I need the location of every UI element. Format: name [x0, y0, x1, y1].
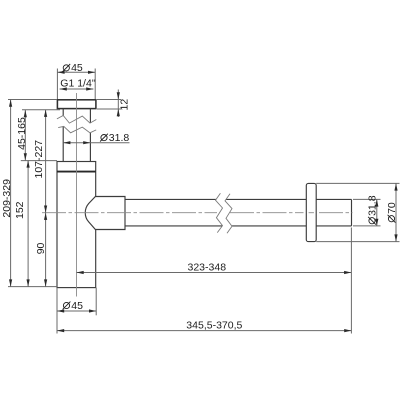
- label d70: [386, 202, 398, 223]
- extension line below outlet pipe end: [350, 228, 352, 334]
- inlet tailpipe right wall lower segment: [89, 133, 91, 162]
- dimension line d31.8 outlet: [376, 199, 378, 226]
- extension line flange bottom right (d70): [316, 241, 399, 243]
- outlet pipe break line 1: [216, 193, 223, 232]
- extension line body bottom right (d45): [95, 288, 97, 316]
- wall escutcheon flange (d70): [306, 183, 316, 241]
- outlet pipe bottom wall right segment: [232, 225, 352, 227]
- dimension line 152: [27, 160, 29, 286]
- extension line body bottom, to the left: [8, 286, 57, 288]
- inlet tailpipe left wall upper segment: [62, 109, 64, 116]
- extension line flange top, to the left: [8, 99, 57, 101]
- dimension line G1 1/4 thread: [60, 88, 94, 90]
- extension line body bottom left (d45): [56, 288, 58, 334]
- dimension line 45-165: [24, 110, 26, 160]
- extension line flange bottom right (12): [97, 108, 121, 110]
- extension line body nut top, to the left: [21, 160, 57, 162]
- extension line flange top right (d70): [316, 182, 399, 184]
- horizontal centerline, right part: [319, 212, 353, 214]
- svg-text:31.8: 31.8: [366, 195, 378, 216]
- label d45 bottom: [63, 300, 84, 312]
- tailpipe break line 1: [57, 116, 96, 124]
- svg-text:323-348: 323-348: [188, 262, 227, 274]
- svg-text:45-165: 45-165: [16, 117, 28, 150]
- trap body top coupling nut edge: [57, 171, 96, 173]
- inlet tailpipe right wall upper segment: [89, 109, 91, 123]
- outlet pipe break line 2: [225, 194, 232, 233]
- dimension line 345,5-370,5: [57, 330, 351, 332]
- horizontal centerline of outlet pipe, left part: [42, 212, 217, 214]
- extension line flange bottom, to the left: [22, 109, 60, 111]
- outlet pipe end edge: [351, 199, 353, 226]
- label d31.8 tailpipe: [100, 132, 129, 144]
- svg-text:45: 45: [71, 300, 83, 312]
- dimension line 209-329: [10, 100, 12, 287]
- outlet pipe bottom wall left segment: [125, 225, 222, 227]
- horizontal centerline, between break and flange: [230, 212, 304, 214]
- svg-text:45: 45: [71, 62, 83, 74]
- horizontal centerline dash across flange: [309, 212, 314, 214]
- label d31.8 outlet: [366, 195, 378, 224]
- extension line left of flange top (d45): [56, 69, 58, 100]
- extension line outlet pipe bottom right (d31.8): [353, 225, 381, 227]
- svg-text:345,5-370,5: 345,5-370,5: [186, 320, 242, 332]
- vertical centerline of trap body: [76, 93, 78, 297]
- inlet flange nut (top, G1 1/4" x 12mm): [57, 100, 96, 109]
- outlet pipe top wall right segment: [226, 198, 352, 200]
- extension line flange top right (12): [97, 99, 121, 101]
- dimension line d31.8 tailpipe: [63, 142, 129, 144]
- svg-text:70: 70: [386, 202, 398, 214]
- dimension line d45 bottom: [57, 310, 96, 312]
- dimension line 12 with outside arrows: [117, 90, 119, 118]
- label d45 top: [62, 62, 83, 74]
- svg-text:G1 1/4": G1 1/4": [60, 78, 96, 90]
- dimension line 107-227: [45, 110, 47, 213]
- outlet elbow coupling: [85, 197, 125, 230]
- svg-text:209-329: 209-329: [1, 179, 13, 218]
- extension line right of flange top (d45): [94, 69, 96, 100]
- outlet pipe top wall left segment: [125, 198, 216, 200]
- svg-text:90: 90: [35, 242, 47, 254]
- dimension line d70: [395, 183, 397, 241]
- inlet tailpipe left wall lower segment: [62, 126, 64, 161]
- dimension line 90: [45, 213, 47, 287]
- svg-text:12: 12: [118, 99, 130, 111]
- dimension line d45 top: [57, 71, 95, 73]
- svg-text:152: 152: [14, 201, 26, 219]
- extension line outlet pipe top right (d31.8): [353, 198, 381, 200]
- svg-text:31.8: 31.8: [109, 132, 130, 144]
- svg-text:107-227: 107-227: [33, 140, 45, 179]
- bottle trap body (d45 cylinder): [57, 162, 96, 288]
- dimension line 323-348: [77, 272, 352, 274]
- tailpipe break line 2: [58, 126, 96, 132]
